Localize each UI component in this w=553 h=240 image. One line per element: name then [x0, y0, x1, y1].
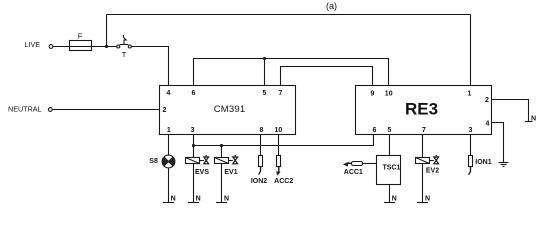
label S8 — [149, 158, 158, 165]
svg-text:4: 4 — [486, 121, 490, 128]
label ACC2 — [274, 178, 293, 185]
wire fuse to switch — [92, 46, 117, 48]
pin 7 RE3 — [422, 127, 426, 134]
wire live riser to top rail — [106, 15, 108, 47]
svg-text:RE3: RE3 — [405, 100, 438, 119]
label ACC1 — [344, 169, 363, 176]
svg-text:5: 5 — [263, 90, 267, 97]
node junction at EV1 — [220, 144, 223, 147]
pin 4 RE3 — [486, 121, 490, 128]
pin 7 CM391 — [279, 90, 283, 97]
svg-text:9: 9 — [371, 91, 375, 98]
label EV2 — [426, 168, 439, 175]
valve EVS — [186, 155, 209, 164]
svg-text:N: N — [531, 115, 536, 122]
wire CM391 pin8 to ION2 — [260, 135, 262, 156]
svg-text:N: N — [171, 195, 176, 202]
svg-text:T: T — [122, 50, 127, 59]
wire RE3 pin7 to EV2 — [422, 135, 424, 158]
label ION2 — [251, 178, 267, 185]
electrode ION1 — [469, 156, 473, 175]
svg-text:ACC2: ACC2 — [274, 178, 293, 185]
switch T — [117, 35, 132, 48]
svg-text:7: 7 — [422, 127, 426, 134]
pin 1 CM391 — [167, 127, 171, 134]
pin 3 CM391 — [191, 127, 195, 134]
svg-text:F: F — [78, 32, 83, 41]
svg-text:7: 7 — [279, 90, 283, 97]
wire ACC1 to TSC1 — [363, 163, 377, 165]
wire TSC1 to N — [389, 185, 391, 203]
terminal NEUTRAL — [48, 108, 52, 112]
pin 6 CM391 — [192, 90, 196, 97]
wire net pin3 to RE3 pin6 — [194, 135, 374, 146]
pin 4 CM391 — [167, 90, 171, 97]
terminal LIVE — [49, 45, 53, 49]
wire live terminal to fuse — [53, 46, 70, 48]
terminal N below S8 — [163, 195, 176, 202]
terminal N below EVS — [188, 195, 201, 202]
label F — [78, 32, 83, 41]
wire CM391 pin10 to ACC2 — [278, 135, 280, 156]
svg-text:6: 6 — [373, 127, 377, 134]
svg-text:1: 1 — [167, 127, 171, 134]
pin 1 RE3 — [468, 91, 472, 98]
svg-text:LIVE: LIVE — [25, 40, 41, 49]
svg-text:10: 10 — [275, 127, 283, 134]
label ION1 — [475, 159, 491, 166]
terminal N below EV1 — [216, 195, 229, 202]
svg-text:ACC1: ACC1 — [344, 169, 363, 176]
wire CM391 pin1 to lamp S8 — [168, 135, 170, 156]
pin 9 RE3 — [371, 91, 375, 98]
label T — [122, 50, 127, 59]
wire RE3 pin4 to earth — [492, 123, 504, 163]
svg-text:S8: S8 — [149, 158, 158, 165]
svg-text:N: N — [425, 195, 430, 202]
svg-text:2: 2 — [485, 97, 489, 104]
pin 5 RE3 — [388, 127, 392, 134]
pin 10 RE3 — [385, 91, 393, 98]
svg-text:3: 3 — [191, 127, 195, 134]
electrode ION2 — [259, 156, 263, 175]
svg-text:EVS: EVS — [195, 169, 209, 176]
svg-text:10: 10 — [385, 91, 393, 98]
pin 8 CM391 — [260, 127, 264, 134]
wire top rail — [107, 14, 471, 16]
wire neutral to CM391 pin 2 — [52, 109, 160, 111]
node NEUTRAL label — [8, 104, 42, 113]
wire drop to RE3 pin 1 — [470, 15, 472, 86]
pin 5 CM391 — [263, 90, 267, 97]
wire RE3 pin5 to TSC1 — [389, 135, 391, 156]
wire CM391 pin6 to RE3 pin10 — [194, 59, 389, 86]
svg-text:N: N — [196, 195, 201, 202]
svg-text:EV2: EV2 — [426, 168, 439, 175]
label EV1 — [224, 169, 237, 176]
wire CM391 pin5 riser — [264, 59, 266, 86]
svg-text:6: 6 — [192, 90, 196, 97]
pin 6 RE3 — [373, 127, 377, 134]
terminal N below TSC1 — [384, 195, 397, 202]
svg-text:N: N — [392, 195, 397, 202]
svg-text:ION1: ION1 — [475, 159, 491, 166]
lamp S8 — [162, 155, 175, 168]
wire RE3 pin2 to N — [492, 100, 529, 122]
svg-text:1: 1 — [468, 91, 472, 98]
wire EV2 to N — [422, 164, 424, 203]
label EVS — [195, 169, 209, 176]
svg-text:N: N — [224, 195, 229, 202]
pin 10 CM391 — [275, 127, 283, 134]
svg-text:ION2: ION2 — [251, 178, 267, 185]
svg-text:(a): (a) — [326, 1, 337, 11]
IC U1 CM391 — [160, 86, 296, 135]
fuse F — [70, 41, 92, 51]
svg-text:5: 5 — [388, 127, 392, 134]
IC U2 RE3 — [356, 86, 492, 135]
node junction after fuse — [105, 45, 108, 48]
pin 3 RE3 — [469, 127, 473, 134]
pin 2 CM391 — [163, 107, 167, 114]
wire switch to CM391 pin 4 — [131, 47, 168, 86]
node junction pin5 — [263, 57, 266, 60]
svg-text:8: 8 — [260, 127, 264, 134]
valve EV1 — [215, 155, 238, 164]
svg-text:4: 4 — [167, 90, 171, 97]
electrode ACC2 — [276, 156, 280, 176]
pin 2 RE3 — [485, 97, 489, 104]
wire CM391 pin3 down to EVS — [193, 135, 195, 158]
svg-text:TSC1: TSC1 — [382, 165, 400, 172]
node LIVE label — [25, 40, 41, 49]
wire junction down to EV1 — [221, 146, 223, 158]
wire EV1 to N — [221, 164, 223, 203]
electrode ACC1 — [343, 162, 363, 167]
ground earth symbol — [499, 163, 509, 167]
wire EVS to N — [193, 164, 195, 203]
wire RE3 pin3 to ION1 — [470, 135, 472, 156]
wire CM391 pin7 to RE3 pin9 — [281, 67, 373, 86]
terminal N at pin2 — [525, 115, 536, 122]
svg-text:CM391: CM391 — [214, 104, 246, 115]
svg-text:3: 3 — [469, 127, 473, 134]
label (a) — [326, 1, 337, 11]
svg-text:EV1: EV1 — [224, 169, 237, 176]
node junction at EVS — [192, 144, 195, 147]
box TSC1 — [377, 156, 401, 185]
wire lamp to N — [168, 168, 170, 203]
svg-text:NEUTRAL: NEUTRAL — [8, 104, 42, 113]
valve EV2 — [416, 155, 439, 164]
svg-text:2: 2 — [163, 107, 167, 114]
terminal N below EV2 — [417, 195, 430, 202]
